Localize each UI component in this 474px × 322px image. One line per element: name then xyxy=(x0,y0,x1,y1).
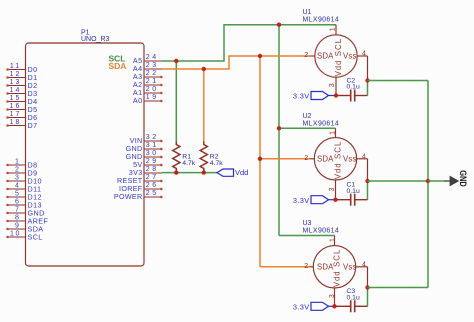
svg-text:7: 7 xyxy=(15,207,19,214)
svg-text:SDA: SDA xyxy=(317,154,334,163)
svg-text:13: 13 xyxy=(10,79,22,86)
svg-text:5: 5 xyxy=(15,191,19,198)
svg-text:25: 25 xyxy=(146,190,159,197)
svg-text:Vdd: Vdd xyxy=(334,60,343,77)
svg-text:3.3V: 3.3V xyxy=(293,196,310,205)
svg-text:3: 3 xyxy=(15,175,19,182)
svg-text:9: 9 xyxy=(15,223,19,230)
svg-text:10: 10 xyxy=(10,231,21,238)
svg-text:28: 28 xyxy=(146,166,159,173)
svg-text:32: 32 xyxy=(146,134,159,141)
svg-text:15: 15 xyxy=(10,95,22,102)
svg-text:4.7k: 4.7k xyxy=(182,160,195,167)
svg-text:Vdd: Vdd xyxy=(334,163,343,180)
svg-text:26: 26 xyxy=(146,182,159,189)
svg-text:24: 24 xyxy=(146,54,159,61)
svg-text:Vdd: Vdd xyxy=(333,271,342,288)
svg-text:2: 2 xyxy=(304,263,308,270)
svg-text:2: 2 xyxy=(304,155,308,162)
svg-text:SCL: SCL xyxy=(333,249,342,267)
svg-text:29: 29 xyxy=(146,158,159,165)
svg-text:MLX90614: MLX90614 xyxy=(303,120,340,127)
svg-text:12: 12 xyxy=(10,71,22,78)
svg-text:14: 14 xyxy=(10,87,22,94)
svg-text:3: 3 xyxy=(329,187,336,191)
svg-text:D7: D7 xyxy=(28,121,38,130)
svg-text:4: 4 xyxy=(362,51,366,58)
svg-text:Vss: Vss xyxy=(343,154,356,163)
svg-text:MLX90614: MLX90614 xyxy=(303,228,340,235)
svg-text:30: 30 xyxy=(146,150,159,157)
svg-text:19: 19 xyxy=(146,94,159,101)
svg-text:31: 31 xyxy=(146,142,159,149)
svg-text:0.1u: 0.1u xyxy=(347,188,360,195)
svg-text:6: 6 xyxy=(15,199,19,206)
svg-text:Vss: Vss xyxy=(343,52,356,61)
svg-text:4: 4 xyxy=(362,261,366,268)
svg-text:17: 17 xyxy=(10,111,22,118)
svg-text:2: 2 xyxy=(304,52,308,59)
svg-text:27: 27 xyxy=(146,174,159,181)
svg-text:MLX90614: MLX90614 xyxy=(303,17,340,24)
svg-text:0.1u: 0.1u xyxy=(347,84,360,91)
svg-text:Vdd: Vdd xyxy=(235,168,248,177)
svg-text:SCL: SCL xyxy=(334,141,343,159)
svg-text:23: 23 xyxy=(146,62,159,69)
svg-text:3: 3 xyxy=(329,83,336,87)
svg-text:SDA: SDA xyxy=(108,61,126,71)
svg-text:1: 1 xyxy=(15,159,19,166)
svg-text:1: 1 xyxy=(329,131,336,135)
svg-text:POWER: POWER xyxy=(114,192,143,201)
svg-text:3: 3 xyxy=(329,294,336,298)
svg-text:GND: GND xyxy=(458,170,468,187)
svg-text:4.7k: 4.7k xyxy=(210,160,223,167)
svg-text:3.3V: 3.3V xyxy=(293,92,310,101)
svg-text:20: 20 xyxy=(146,86,159,93)
svg-text:0.1u: 0.1u xyxy=(347,295,360,302)
svg-text:U3: U3 xyxy=(303,220,312,227)
svg-text:18: 18 xyxy=(10,119,22,126)
svg-text:3.3V: 3.3V xyxy=(293,303,310,312)
svg-text:1: 1 xyxy=(329,27,336,31)
svg-text:Vss: Vss xyxy=(343,262,356,271)
svg-text:U1: U1 xyxy=(303,9,312,16)
svg-text:11: 11 xyxy=(10,63,21,70)
svg-text:4: 4 xyxy=(362,153,366,160)
svg-text:SDA: SDA xyxy=(317,262,334,271)
svg-text:21: 21 xyxy=(146,78,159,85)
svg-text:U2: U2 xyxy=(303,113,312,120)
svg-text:2: 2 xyxy=(15,167,19,174)
svg-text:1: 1 xyxy=(329,238,336,242)
svg-text:UNO_R3: UNO_R3 xyxy=(81,36,110,43)
svg-text:16: 16 xyxy=(10,103,22,110)
svg-text:8: 8 xyxy=(15,215,19,222)
svg-text:SDA: SDA xyxy=(317,52,334,61)
svg-text:SCL: SCL xyxy=(334,38,343,56)
svg-text:SCL: SCL xyxy=(28,233,43,242)
svg-text:22: 22 xyxy=(146,70,159,77)
svg-text:4: 4 xyxy=(15,183,19,190)
svg-text:A0: A0 xyxy=(133,96,143,105)
